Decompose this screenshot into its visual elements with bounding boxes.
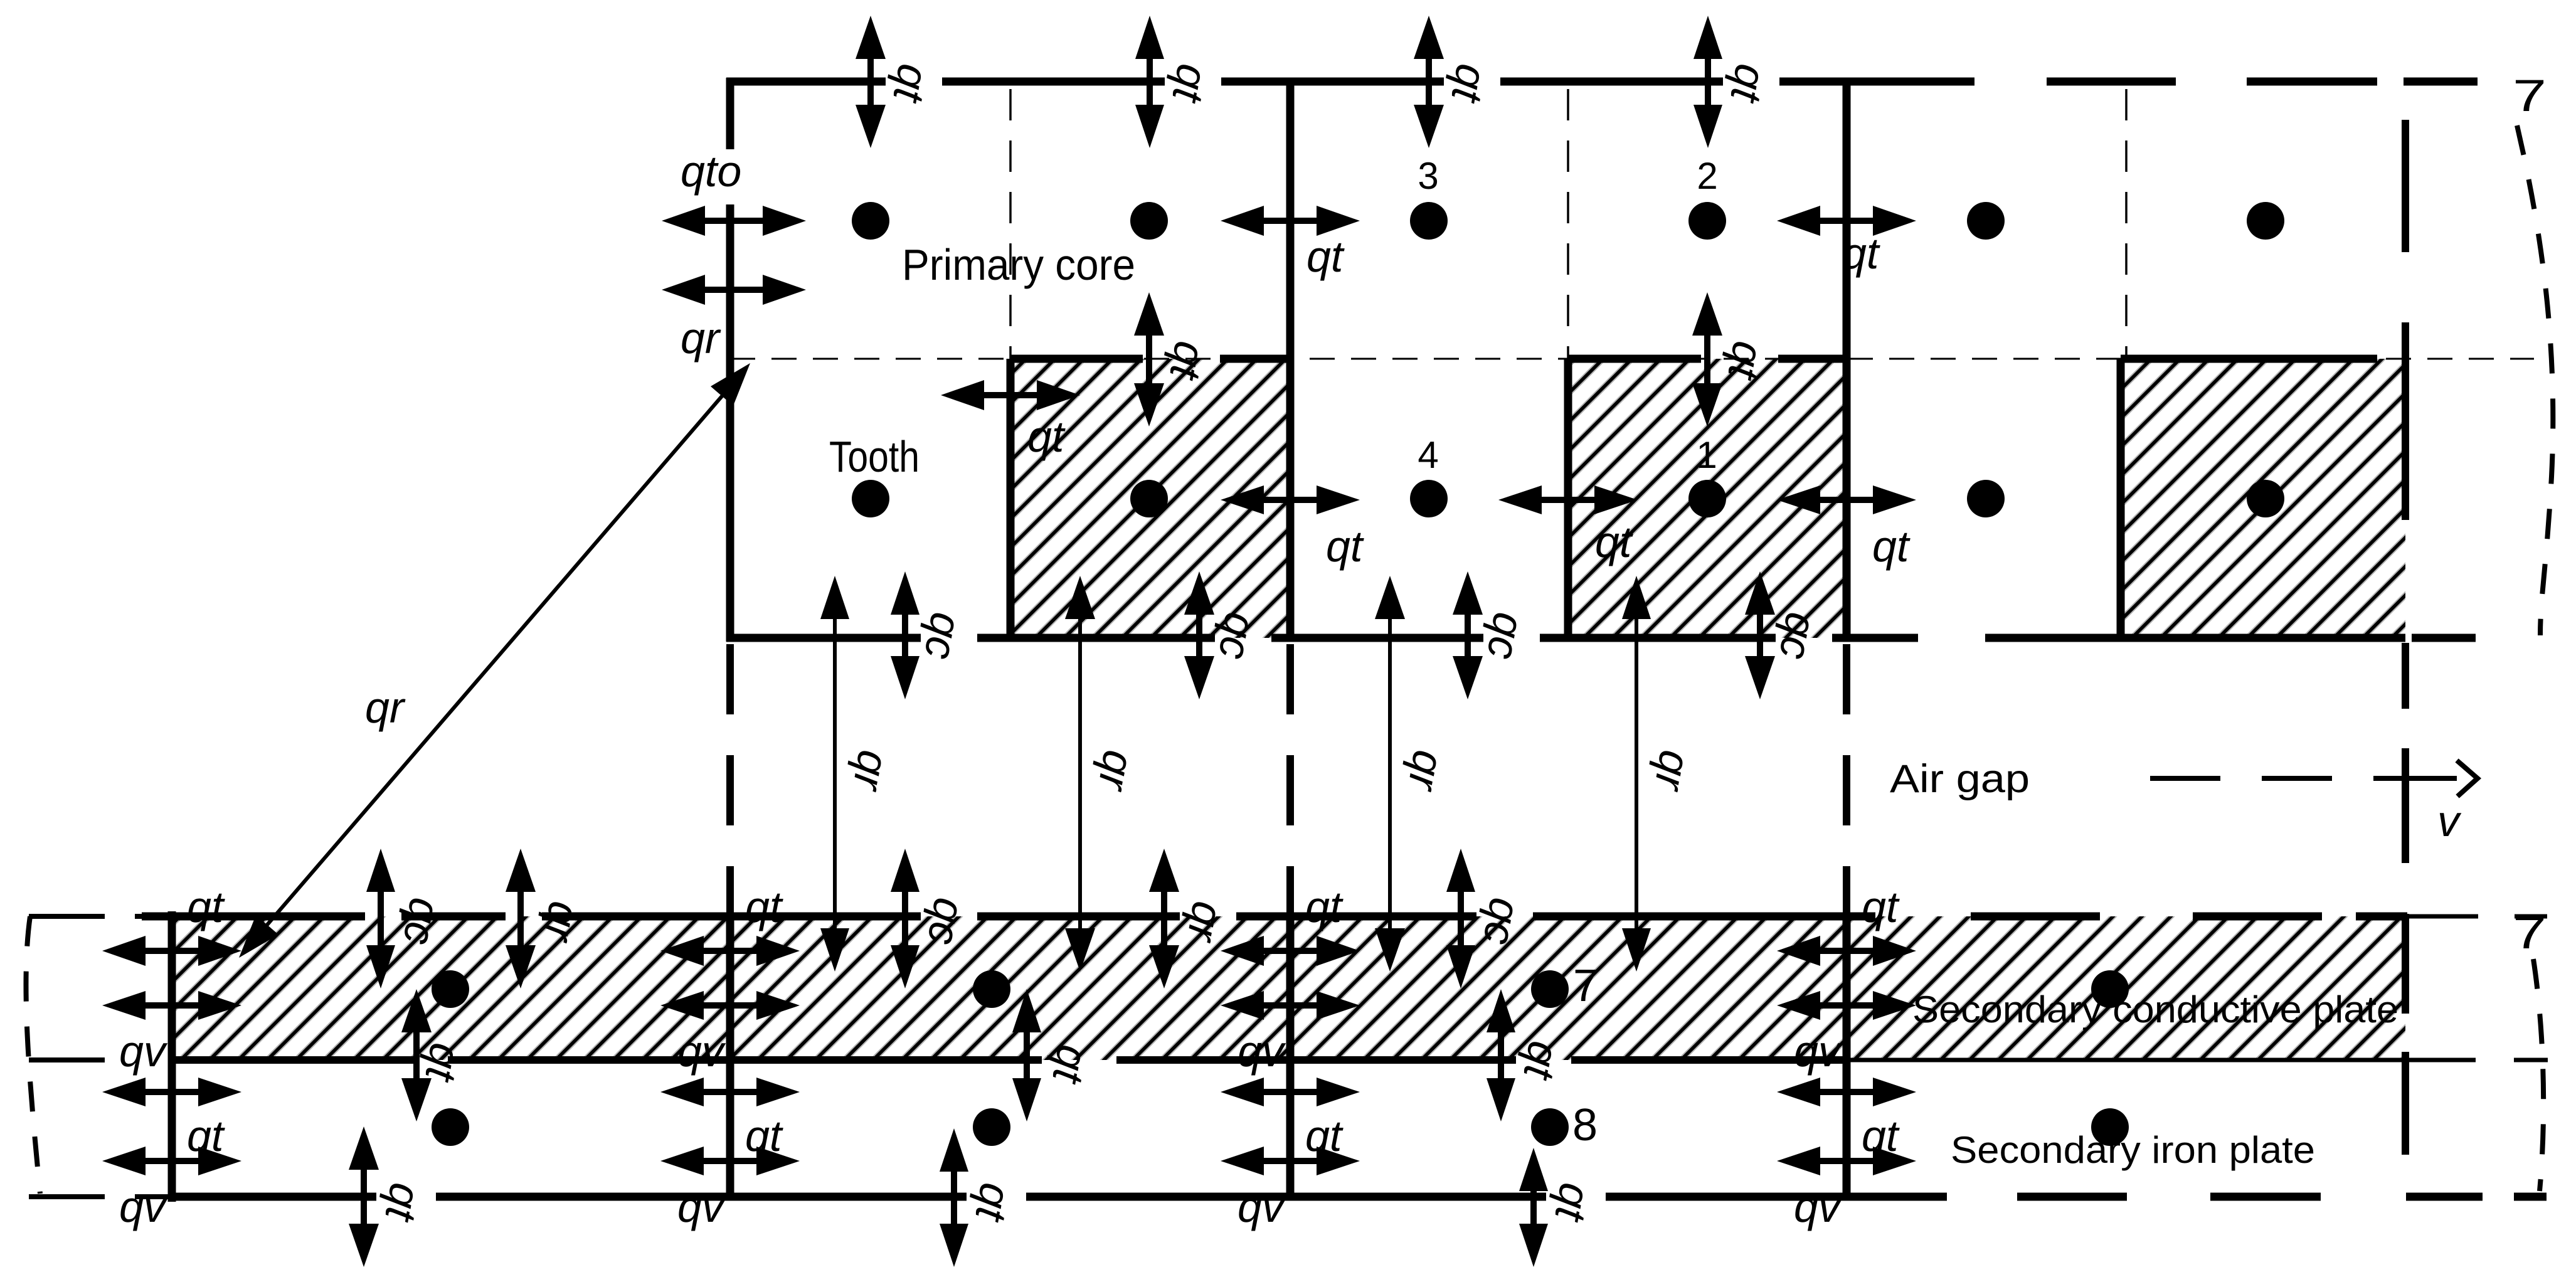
- svg-text:qt: qt: [1305, 1111, 1344, 1160]
- yoke node dot x=2722: [1688, 202, 1726, 240]
- yoke node dot x=1388: [852, 202, 889, 240]
- dashed vertical x=3835 primary: [2402, 120, 2409, 520]
- qt arrow across slot B left edge: [1498, 485, 1638, 514]
- qt arrow through plate mid x=2393: [1487, 989, 1515, 1121]
- conductive plate node dot x=3364: [2091, 970, 2129, 1008]
- qt/qv arrow across x=274 y=1516: [102, 936, 241, 966]
- v motion dashed line: [2150, 762, 2478, 795]
- qt arrow through plate bottom x=2445: [1519, 1148, 1548, 1267]
- qt/qv arrow across x=1164 y=1516: [660, 936, 800, 966]
- svg-text:qt: qt: [1307, 232, 1345, 281]
- conductive plate node dot x=1581: [973, 970, 1010, 1008]
- svg-text:qt: qt: [1862, 882, 1900, 931]
- qt/qv arrow across x=1164 y=1603: [660, 991, 800, 1020]
- qt arrow through plate bottom x=580: [349, 1126, 379, 1267]
- qr arrow pair lower: [662, 275, 806, 305]
- qt arrow through plate bottom x=1521: [940, 1128, 968, 1267]
- left stub mid: [29, 1057, 105, 1062]
- qt/qv arrow across x=2057 y=1516: [1221, 936, 1360, 966]
- qt arrow through plate mid x=1637: [1012, 989, 1041, 1121]
- secondary conductive plate hatch: [172, 916, 2405, 1060]
- tooth-layer node dot x=3612: [2247, 480, 2284, 517]
- svg-text:qc: qc: [1478, 609, 1534, 663]
- primary core top line: [726, 78, 2478, 86]
- svg-text:qt: qt: [1595, 517, 1633, 566]
- qc arrow through plate top x=1443: [891, 849, 920, 988]
- svg-text:qt: qt: [187, 1111, 225, 1160]
- tooth-layer node dot x=1388: [852, 480, 889, 517]
- svg-text:2: 2: [1697, 155, 1717, 197]
- svg-text:qv: qv: [1794, 1027, 1843, 1076]
- right break curve secondary: [2533, 959, 2543, 1191]
- qc arrow through primary bottom x=2806: [1745, 571, 1775, 699]
- qt arrow across slot A left edge: [941, 380, 1080, 410]
- qt arrow across x=2057 tooth row: [1221, 485, 1360, 514]
- qr arrow through plate top x=1856: [1149, 849, 1179, 988]
- secondary dashed vertical x=3835: [2402, 914, 2409, 1155]
- left break curve secondary: [26, 916, 40, 1194]
- qc arrow through primary bottom x=2340: [1453, 571, 1483, 699]
- secondary vertical x=2057: [1286, 916, 1295, 1197]
- secondary conductive plate top line: [142, 913, 2407, 921]
- yoke node dot x=3612: [2247, 202, 2284, 240]
- plate boundary thin right part: [1850, 1058, 2476, 1062]
- right break curve primary: [2517, 125, 2553, 635]
- iron plate node dot x=2471: [1531, 1108, 1569, 1146]
- svg-text:qt: qt: [1872, 522, 1911, 571]
- yoke node dot x=1832: [1130, 202, 1168, 240]
- air-gap dashed vertical x=2057: [1286, 644, 1294, 913]
- svg-text:qv: qv: [1238, 1027, 1286, 1076]
- svg-text:qv: qv: [1794, 1182, 1843, 1231]
- svg-text:7: 7: [2513, 908, 2547, 958]
- qt/qv arrow across x=2944 y=1851: [1777, 1147, 1916, 1175]
- svg-text:qc: qc: [918, 894, 975, 948]
- yoke node dot x=2278: [1410, 202, 1448, 240]
- svg-text:7: 7: [1573, 961, 1598, 1011]
- slot A top edge: [1010, 355, 1290, 363]
- svg-text:Tooth: Tooth: [829, 432, 920, 481]
- qc arrow through primary bottom x=1912: [1184, 571, 1214, 699]
- svg-text:Air gap: Air gap: [1890, 757, 2030, 801]
- qt/qv arrow across x=2944 y=1516: [1777, 936, 1916, 966]
- secondary vertical x=2944: [1843, 916, 1851, 1197]
- svg-text:qv: qv: [677, 1027, 726, 1076]
- svg-text:qt: qt: [1842, 229, 1880, 278]
- svg-text:qt: qt: [1326, 522, 1364, 571]
- dashed cell midline x=3390: [2125, 89, 2128, 359]
- qt arrow through top line x=2278: [1414, 16, 1444, 148]
- long qr radiation arrow x=2609: [1622, 576, 1651, 972]
- qr arrow through plate top x=830: [506, 849, 536, 988]
- long qr radiation arrow x=1331: [820, 576, 849, 972]
- qc arrow through plate top x=607: [366, 849, 395, 988]
- svg-text:qt: qt: [1862, 1111, 1900, 1160]
- svg-text:qt: qt: [1305, 882, 1344, 931]
- qt/qv arrow across x=274 y=1741: [102, 1078, 241, 1106]
- slot/tooth vertical line x=2057: [1286, 82, 1295, 642]
- slot winding hatch C: [2121, 359, 2405, 638]
- qt arrow through plate mid x=664: [401, 989, 432, 1121]
- left stub top: [29, 914, 142, 919]
- conductive plate node dot x=2471: [1531, 970, 1569, 1008]
- qc arrow through primary bottom x=1443: [891, 571, 920, 699]
- slot C left edge: [2117, 359, 2125, 642]
- dashed cell midline x=1611: [1009, 89, 1012, 359]
- slot/tooth vertical line x=2944: [1843, 82, 1851, 642]
- svg-text:Primary core: Primary core: [902, 240, 1135, 289]
- svg-text:qv: qv: [119, 1027, 168, 1076]
- iron plate node dot x=718: [432, 1108, 469, 1146]
- slot B left edge: [1564, 359, 1572, 642]
- primary bottom line (tooth tips): [726, 634, 2476, 642]
- yoke-tooth dashed boundary: [730, 358, 2534, 360]
- svg-text:Secondary conductive plate: Secondary conductive plate: [1912, 988, 2398, 1031]
- qt arrow into slot B top: [1692, 292, 1722, 427]
- iron plate node dot x=1581: [973, 1108, 1010, 1146]
- svg-text:8: 8: [1572, 1100, 1598, 1150]
- air-gap vertical x=3835: [2402, 643, 2409, 863]
- yoke node dot x=3166: [1967, 202, 2005, 240]
- slot C top edge: [2121, 355, 2377, 363]
- qt/qv arrow across x=1164 y=1851: [660, 1147, 800, 1175]
- qt/qv arrow across x=1164 y=1741: [660, 1078, 800, 1106]
- plate top dash at break: [2515, 914, 2547, 919]
- plate mid dash at break: [2514, 1058, 2548, 1062]
- qt arrow through top line x=2723: [1693, 16, 1722, 148]
- tooth-layer node dot x=2722: [1688, 480, 1726, 517]
- air-gap dashed vertical x=1164: [726, 644, 734, 913]
- svg-text:7: 7: [2513, 72, 2547, 121]
- dashed cell midline x=2500: [1567, 89, 1569, 359]
- secondary iron plate bottom line: [168, 1193, 2547, 1201]
- svg-text:qr: qr: [681, 314, 721, 363]
- svg-text:qr: qr: [365, 683, 406, 732]
- svg-text:v: v: [2437, 797, 2462, 845]
- tooth-layer node dot x=2278: [1410, 480, 1448, 517]
- svg-text:qc: qc: [394, 894, 450, 948]
- svg-text:qc: qc: [1474, 894, 1530, 948]
- qt/qv arrow across x=2057 y=1603: [1221, 991, 1360, 1020]
- qt arrow through top line x=1388: [856, 16, 886, 148]
- svg-text:qt: qt: [1027, 412, 1066, 461]
- long qr radiation arrow x=2216: [1375, 576, 1405, 972]
- svg-text:qc: qc: [1770, 609, 1826, 663]
- tooth-layer node dot x=3166: [1967, 480, 2005, 517]
- tooth-layer node dot x=1832: [1130, 480, 1168, 517]
- conductive/iron plate boundary line: [168, 1056, 1850, 1064]
- plate top thin right part: [2407, 914, 2478, 919]
- slot winding hatch B: [1568, 359, 1847, 638]
- svg-text:qt: qt: [745, 882, 783, 931]
- qt/qv arrow across x=2057 y=1851: [1221, 1147, 1360, 1175]
- svg-text:qv: qv: [119, 1182, 168, 1231]
- qt/qv arrow across x=274 y=1851: [102, 1147, 241, 1175]
- svg-text:qv: qv: [1238, 1182, 1286, 1231]
- air-gap dashed vertical x=2944: [1843, 644, 1850, 913]
- qt/qv arrow across x=274 y=1603: [102, 991, 241, 1020]
- diagonal qr radiation arrow (overhang): [239, 363, 750, 958]
- svg-text:1: 1: [1696, 434, 1717, 476]
- slot A left edge: [1007, 359, 1015, 642]
- qto arrow pair upper: [662, 206, 806, 236]
- qt arrow into slot A top: [1134, 292, 1164, 427]
- svg-text:qc: qc: [1209, 609, 1266, 663]
- secondary left border: [168, 911, 176, 1202]
- svg-text:4: 4: [1418, 434, 1438, 476]
- primary left border: [726, 78, 734, 642]
- slot B top edge: [1568, 355, 1847, 363]
- secondary vertical x=1164: [726, 916, 734, 1197]
- svg-text:3: 3: [1418, 155, 1438, 197]
- svg-text:qto: qto: [681, 147, 741, 196]
- svg-text:qc: qc: [915, 609, 972, 663]
- qt arrow across x=2944 tooth row: [1777, 485, 1916, 514]
- qt/qv arrow across x=2944 y=1603: [1777, 991, 1916, 1020]
- svg-text:qt: qt: [745, 1111, 783, 1160]
- qt/qv arrow across x=2057 y=1741: [1221, 1078, 1360, 1106]
- qt arrow through top line x=1833: [1135, 16, 1164, 148]
- svg-text:Secondary iron plate: Secondary iron plate: [1951, 1129, 2315, 1171]
- qt arrow across x=2057 yoke: [1221, 206, 1360, 236]
- qt/qv arrow across x=2944 y=1741: [1777, 1078, 1916, 1106]
- svg-text:qt: qt: [187, 882, 225, 931]
- qt arrow across x=2944 yoke: [1777, 206, 1916, 236]
- left stub bottom: [29, 1194, 168, 1199]
- svg-text:qv: qv: [677, 1182, 726, 1231]
- qc arrow through plate top x=2329: [1446, 849, 1475, 988]
- iron plate node dot x=3364: [2091, 1108, 2129, 1146]
- conductive plate node dot x=718: [432, 970, 469, 1008]
- slot winding hatch A: [1010, 359, 1290, 638]
- long qr radiation arrow x=1722: [1065, 576, 1095, 972]
